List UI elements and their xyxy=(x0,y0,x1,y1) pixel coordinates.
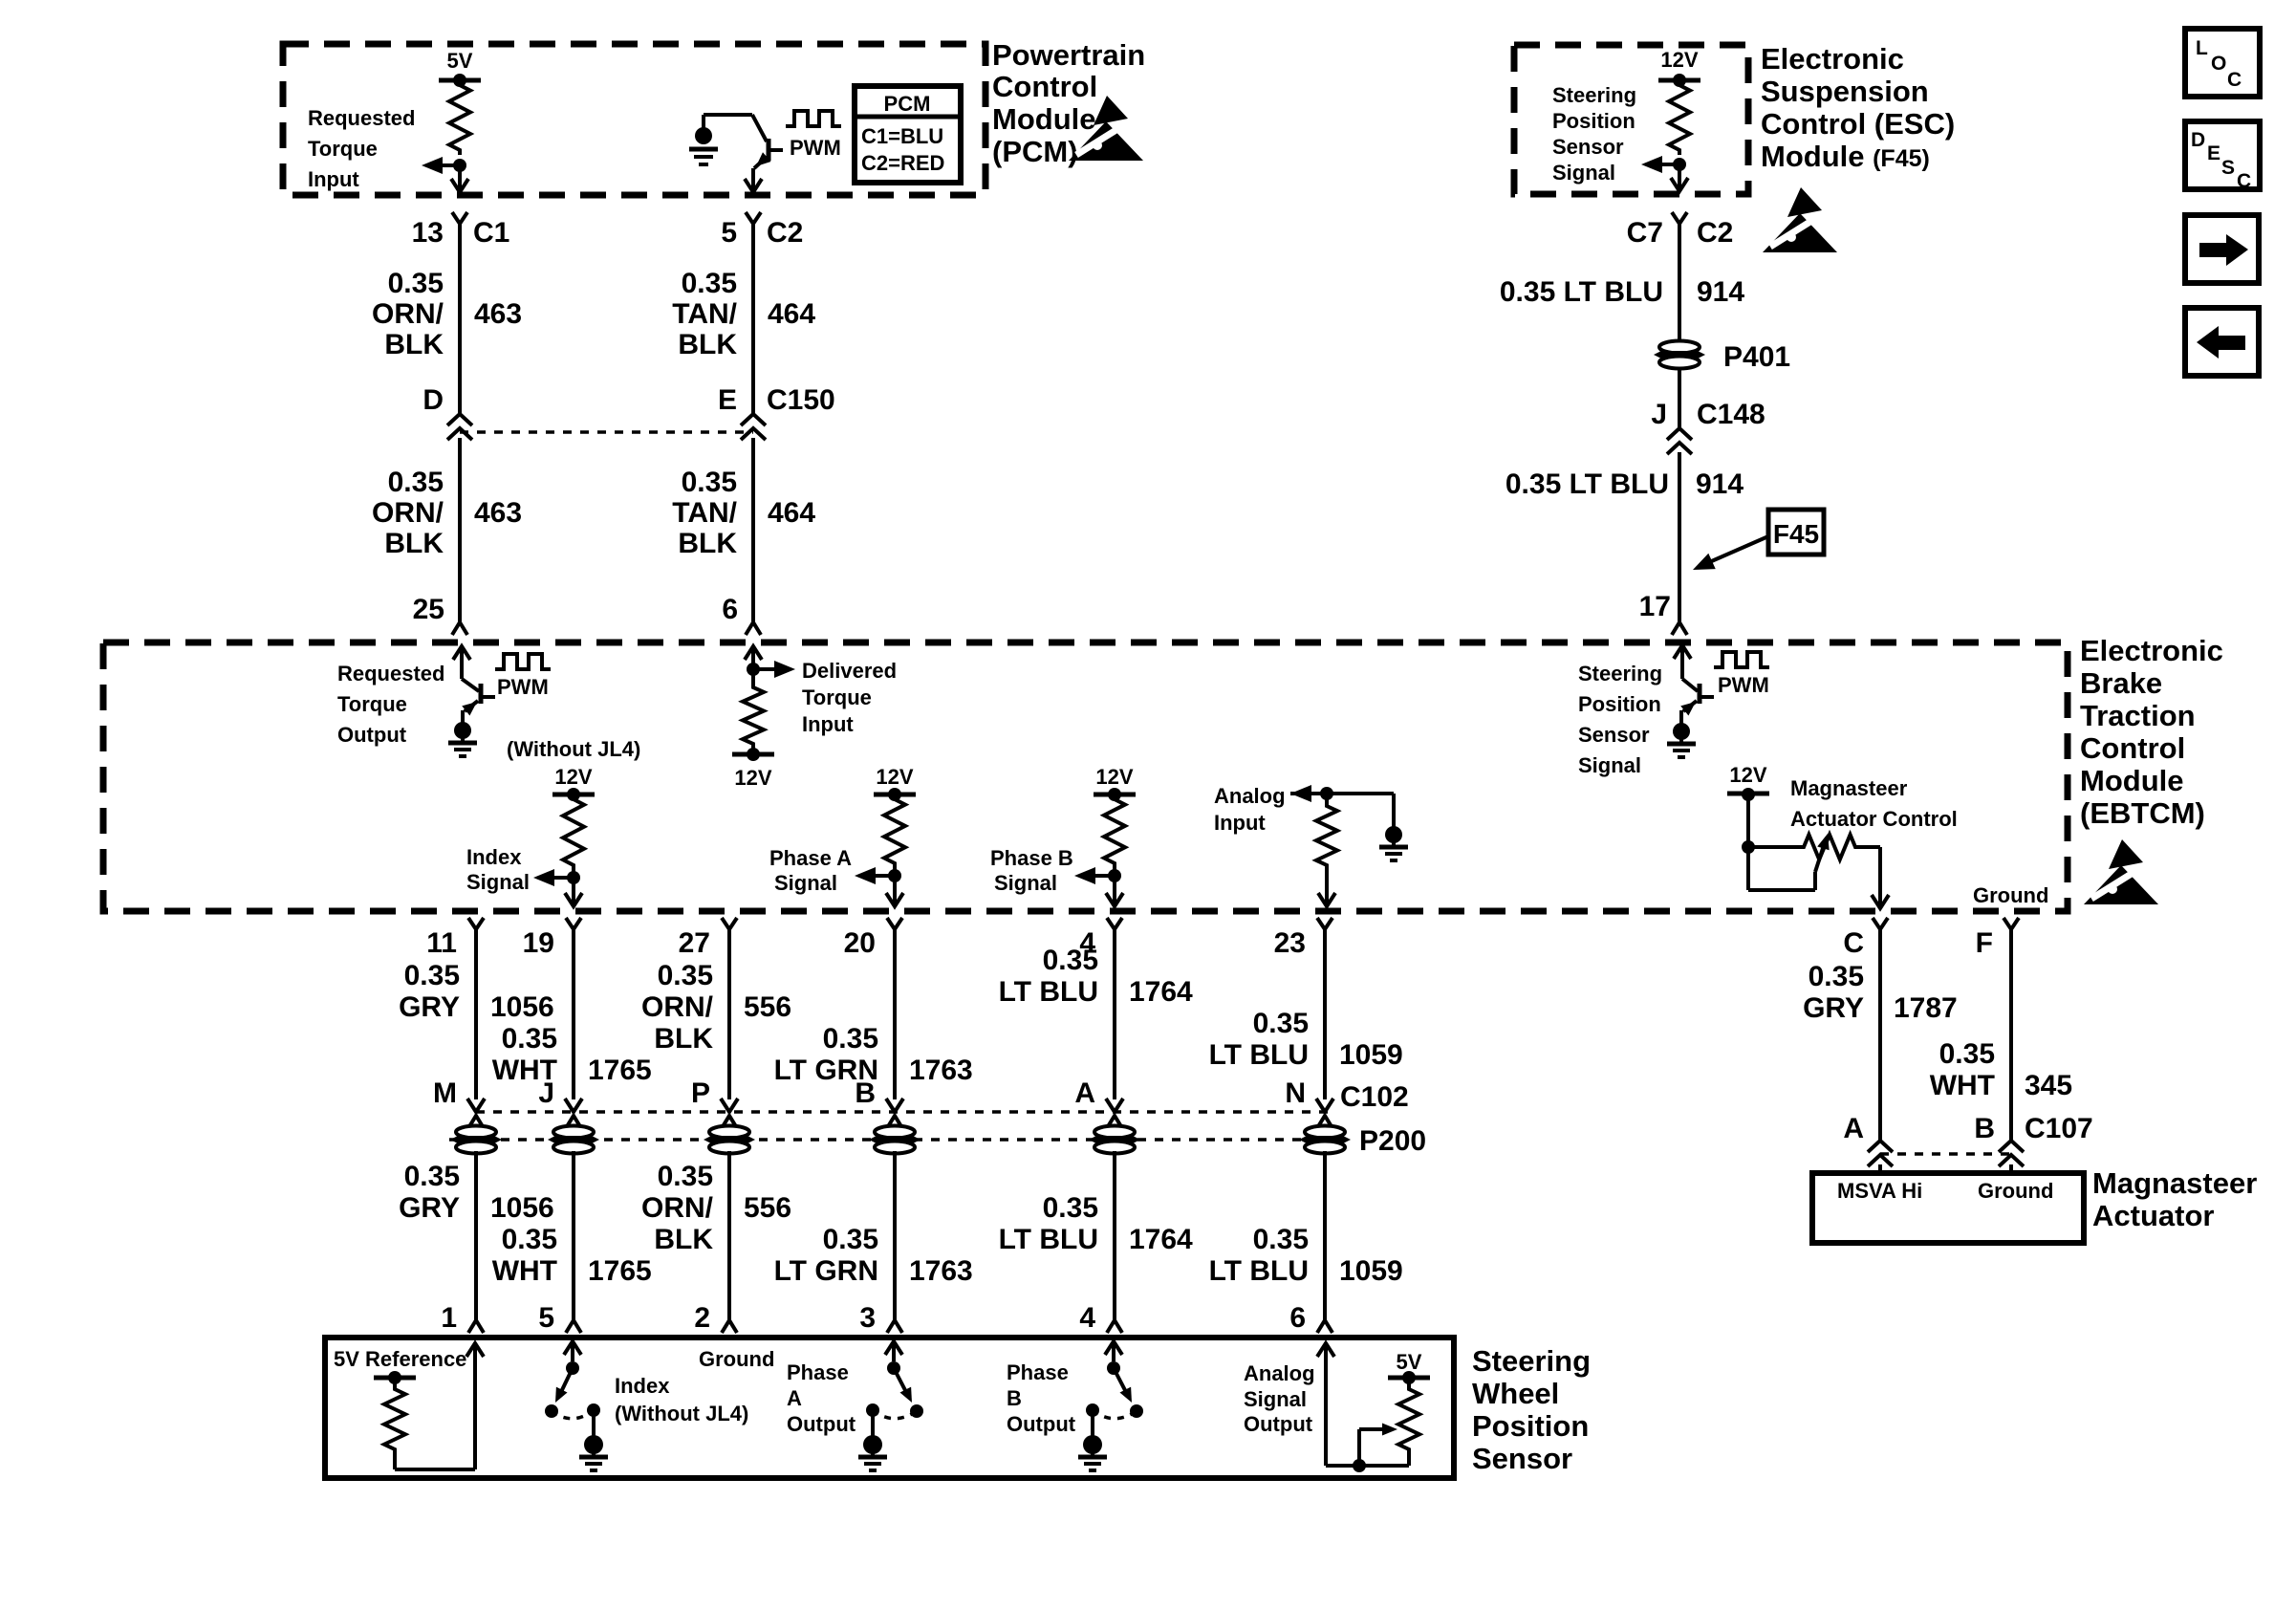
wire end arrow at C102 terminal J xyxy=(565,1099,582,1112)
wire Magnasteer control exit with arrow (pin C) xyxy=(1878,847,1882,907)
connector C102 dashed line xyxy=(476,1110,1334,1114)
svg-text:Input: Input xyxy=(308,167,359,191)
wire 463 lower segment (0.35 ORN/BLK) xyxy=(458,438,462,621)
connector C148 terminal chevrons xyxy=(1667,428,1692,440)
svg-text:13: 13 xyxy=(412,217,444,249)
svg-text:Output: Output xyxy=(1007,1412,1076,1436)
wire Phase A Signal exit with arrow xyxy=(893,876,897,905)
svg-text:Ground: Ground xyxy=(699,1347,774,1371)
wire PCM pin 13 exit with arrow xyxy=(458,165,462,191)
svg-text:Phase: Phase xyxy=(787,1360,849,1384)
resistor Index Signal pull-up xyxy=(563,794,584,870)
PWM square wave symbol (EBTCM right) xyxy=(1714,652,1769,667)
svg-text:S: S xyxy=(2221,157,2235,179)
svg-text:Control (ESC): Control (ESC) xyxy=(1761,107,1955,141)
svg-text:BLK: BLK xyxy=(654,1224,713,1255)
pin 11 terminal fork below EBTCM xyxy=(468,918,484,929)
pin C terminal fork below EBTCM xyxy=(1873,918,1888,929)
wire ground to transistor collector xyxy=(702,115,705,136)
svg-text:914: 914 xyxy=(1696,468,1744,500)
wire entry arrow pin 6 (Delivered Torque Input) xyxy=(745,646,762,660)
svg-text:1: 1 xyxy=(441,1302,457,1334)
wire junction to left arrow (Steering Position Sensor Signal) xyxy=(1658,163,1679,166)
svg-text:A: A xyxy=(1074,1077,1095,1109)
power 5V rail (5V Reference) xyxy=(388,1371,401,1384)
svg-text:0.35: 0.35 xyxy=(502,1023,557,1055)
svg-text:C2=RED: C2=RED xyxy=(861,151,944,175)
svg-text:BLK: BLK xyxy=(678,329,737,360)
node junction Phase A Signal xyxy=(893,868,897,876)
icon box left arrow xyxy=(2185,308,2259,376)
resistor Magnasteer Actuator Control (horizontal) xyxy=(1748,845,1800,849)
svg-text:1059: 1059 xyxy=(1339,1039,1403,1071)
svg-text:WHT: WHT xyxy=(1930,1070,1995,1101)
wire analog output to potentiometer xyxy=(1326,1464,1409,1468)
svg-text:0.35: 0.35 xyxy=(1939,1038,1995,1070)
svg-text:Sensor: Sensor xyxy=(1472,1442,1572,1475)
svg-text:20: 20 xyxy=(844,927,876,959)
svg-text:0.35: 0.35 xyxy=(404,960,460,991)
terminal fork at C102 (A) xyxy=(1107,1116,1122,1128)
terminal fork at C102 (B) xyxy=(887,1116,902,1128)
svg-text:1056: 1056 xyxy=(490,991,554,1023)
svg-text:(Without JL4): (Without JL4) xyxy=(615,1402,748,1425)
svg-text:12V: 12V xyxy=(1729,763,1766,787)
svg-text:0.35: 0.35 xyxy=(1043,1192,1098,1224)
wire 0.35 GRY 1787 (pin C to MSVA Hi) xyxy=(1878,941,1882,1141)
terminal fork at C102 (N) xyxy=(1317,1116,1332,1128)
svg-text:ORN/: ORN/ xyxy=(372,497,444,529)
svg-text:0.35: 0.35 xyxy=(388,467,444,498)
wire 0.35 ORN/BLK 556 lower segment xyxy=(727,1151,731,1320)
wire Index Signal exit with arrow xyxy=(572,878,575,905)
pin 27 terminal fork below EBTCM xyxy=(722,918,737,929)
wire ESC pin C7 exit with arrow xyxy=(1678,164,1681,190)
svg-text:C2: C2 xyxy=(767,217,803,249)
pin 19 terminal fork below EBTCM xyxy=(566,918,581,929)
svg-text:0.35: 0.35 xyxy=(682,268,737,299)
svg-text:PWM: PWM xyxy=(497,675,549,699)
svg-text:P200: P200 xyxy=(1359,1125,1426,1157)
svg-text:0.35: 0.35 xyxy=(404,1161,460,1192)
svg-text:Signal: Signal xyxy=(1578,753,1641,777)
svg-text:23: 23 xyxy=(1274,927,1306,959)
wire end arrow at C102 terminal M xyxy=(467,1099,485,1112)
transistor Q in PCM (Delivered Torque Output) xyxy=(752,115,767,141)
wire 12V to junction xyxy=(1746,794,1750,847)
connector P200 pass-through disc (J) xyxy=(553,1126,594,1139)
svg-text:BLK: BLK xyxy=(678,528,737,559)
pin 23 terminal fork below EBTCM xyxy=(1317,918,1332,929)
callout arrow from F45 box to wire 914 xyxy=(1707,536,1768,563)
wire 464 lower segment (0.35 TAN/BLK) xyxy=(751,438,755,621)
connector P200 pass-through disc (M) xyxy=(456,1126,496,1139)
node junction analog wiper xyxy=(1353,1459,1366,1472)
connector P200 pass-through disc (N) xyxy=(1305,1126,1345,1139)
resistor sensor potentiometer xyxy=(1398,1384,1419,1454)
svg-text:1056: 1056 xyxy=(490,1192,554,1224)
svg-text:C102: C102 xyxy=(1340,1081,1409,1113)
svg-text:5: 5 xyxy=(721,217,737,249)
svg-text:MSVA Hi: MSVA Hi xyxy=(1837,1179,1922,1203)
svg-text:Output: Output xyxy=(1244,1412,1313,1436)
svg-text:Index: Index xyxy=(466,845,522,869)
svg-text:TAN/: TAN/ xyxy=(672,497,737,529)
svg-text:Magnasteer: Magnasteer xyxy=(2092,1166,2257,1200)
svg-text:0.35: 0.35 xyxy=(1253,1224,1309,1255)
svg-text:Requested: Requested xyxy=(308,106,415,130)
icon box DESC xyxy=(2185,121,2260,189)
svg-text:Sensor: Sensor xyxy=(1578,723,1650,747)
wire C107 to Magnasteer actuator (B) xyxy=(2009,1164,2013,1173)
svg-text:Index: Index xyxy=(615,1374,670,1398)
wire entry arrow pin 17 (Steering Position Sensor Signal) xyxy=(1674,645,1691,659)
icon box LOC xyxy=(2185,29,2260,97)
switch Index (sensor) xyxy=(564,1341,581,1355)
svg-text:1059: 1059 xyxy=(1339,1255,1403,1287)
connector P401 in-line disc xyxy=(1659,341,1700,354)
terminal fork at C102 (M) xyxy=(468,1116,484,1128)
svg-text:Brake: Brake xyxy=(2080,666,2162,700)
switch Phase A Output (sensor) xyxy=(885,1341,902,1355)
svg-text:J: J xyxy=(1651,399,1667,430)
ground (Phase B switch) xyxy=(1091,1410,1094,1438)
pin 17 terminal fork into EBTCM xyxy=(1672,622,1687,635)
resistor Phase B Signal pull-up xyxy=(1104,794,1125,868)
svg-text:463: 463 xyxy=(474,298,522,330)
svg-text:(Without JL4): (Without JL4) xyxy=(507,737,640,761)
callout box F45 xyxy=(1768,510,1824,555)
svg-text:Position: Position xyxy=(1472,1409,1589,1443)
svg-text:M: M xyxy=(433,1077,457,1109)
node junction Index Signal xyxy=(572,870,575,878)
svg-text:3: 3 xyxy=(859,1302,876,1334)
connector P200 pass-through disc (B) xyxy=(875,1126,915,1139)
svg-text:E: E xyxy=(718,384,737,416)
terminal fork at C102 (P) xyxy=(722,1116,737,1128)
svg-text:0.35: 0.35 xyxy=(1253,1008,1309,1039)
ESD sensitive symbol (ESC) xyxy=(1787,187,1822,217)
wire end arrow at C102 terminal A xyxy=(1106,1099,1123,1112)
resistor in PCM 5V pull-up xyxy=(449,80,470,155)
svg-text:C: C xyxy=(2237,170,2251,192)
wire 5V reference loop bottom xyxy=(395,1468,475,1471)
ground (Steering Position Sensor Signal) xyxy=(1673,723,1690,740)
svg-text:556: 556 xyxy=(744,991,791,1023)
svg-text:Phase A: Phase A xyxy=(769,846,852,870)
svg-text:Module: Module xyxy=(992,102,1096,136)
node junction Delivered Torque Input xyxy=(747,663,760,676)
svg-text:BLK: BLK xyxy=(384,528,444,559)
svg-text:C1=BLU: C1=BLU xyxy=(861,124,943,148)
svg-text:6: 6 xyxy=(722,594,738,625)
wire P401 to C148 xyxy=(1678,368,1681,427)
svg-text:D: D xyxy=(2191,129,2205,151)
pin 25 terminal fork into EBTCM xyxy=(452,622,467,635)
wire junction to left arrow (Requested Torque Input) xyxy=(439,163,460,167)
pin C7 C2 terminal fork below ESC xyxy=(1672,212,1687,224)
svg-text:A: A xyxy=(1843,1113,1864,1144)
svg-text:0.35: 0.35 xyxy=(823,1023,878,1055)
svg-text:27: 27 xyxy=(679,927,710,959)
wire 0.35 LT GRN 1763 lower segment xyxy=(893,1151,897,1320)
svg-text:Actuator Control: Actuator Control xyxy=(1790,807,1958,831)
svg-text:Control: Control xyxy=(2080,731,2185,765)
svg-text:(EBTCM): (EBTCM) xyxy=(2080,796,2205,830)
module box: Magnasteer Actuator xyxy=(1812,1173,2084,1243)
svg-text:Analog: Analog xyxy=(1214,784,1286,808)
module box: Electronic Suspension Control (ESC) dashed outline xyxy=(1514,45,1748,194)
pin 6 terminal fork into sensor xyxy=(1317,1320,1332,1333)
wire 0.35 GRY 1056 upper segment xyxy=(474,941,478,1099)
wire Analog Input exit with arrow xyxy=(1325,870,1329,905)
svg-text:Sensor: Sensor xyxy=(1552,135,1624,159)
ground (Analog Input) xyxy=(1385,826,1402,843)
wire 0.35 WHT 1765 upper segment xyxy=(572,941,575,1099)
svg-text:LT GRN: LT GRN xyxy=(774,1255,878,1287)
resistor Analog Input pull-down xyxy=(1316,801,1337,870)
switch Phase B Output (sensor) xyxy=(1105,1341,1122,1355)
svg-text:0.35: 0.35 xyxy=(823,1224,878,1255)
svg-text:Phase: Phase xyxy=(1007,1360,1069,1384)
transistor Q EBTCM Steering Position Sensor Signal xyxy=(1682,679,1698,691)
svg-text:L: L xyxy=(2196,37,2208,59)
svg-text:19: 19 xyxy=(523,927,554,959)
svg-text:LT BLU: LT BLU xyxy=(999,1224,1098,1255)
module box: Electronic Brake Traction Control Module (EBTCM) dashed outline xyxy=(103,642,2068,911)
svg-text:GRY: GRY xyxy=(399,1192,460,1224)
svg-text:5V: 5V xyxy=(447,49,473,73)
svg-text:463: 463 xyxy=(474,497,522,529)
svg-text:1764: 1764 xyxy=(1129,1224,1193,1255)
wire pin 1 entry arrow (5V Reference) xyxy=(466,1343,484,1357)
svg-text:LT BLU: LT BLU xyxy=(999,976,1098,1008)
PWM square wave symbol (EBTCM left) xyxy=(495,654,551,669)
svg-text:TAN/: TAN/ xyxy=(672,298,737,330)
ESD sensitive symbol (EBTCM) xyxy=(2109,839,2143,869)
svg-text:P: P xyxy=(691,1077,710,1109)
svg-text:1764: 1764 xyxy=(1129,976,1193,1008)
svg-text:J: J xyxy=(538,1077,554,1109)
svg-text:ORN/: ORN/ xyxy=(641,1192,714,1224)
svg-text:C1: C1 xyxy=(473,217,509,249)
svg-text:Control: Control xyxy=(992,70,1097,103)
svg-text:WHT: WHT xyxy=(492,1255,557,1287)
svg-text:O: O xyxy=(2211,53,2226,75)
pin 5 C2 terminal fork below PCM xyxy=(746,212,761,224)
svg-text:Torque: Torque xyxy=(802,685,872,709)
svg-text:Phase B: Phase B xyxy=(990,846,1073,870)
wire transistor emitter to ground (Steering) xyxy=(1679,710,1683,725)
svg-text:Input: Input xyxy=(1214,811,1266,835)
svg-text:25: 25 xyxy=(413,594,444,625)
svg-text:0.35: 0.35 xyxy=(658,960,713,991)
svg-text:12V: 12V xyxy=(734,766,771,790)
wire transistor emitter to ground xyxy=(461,710,465,724)
wire 914 lower segment (0.35 LT BLU) xyxy=(1678,452,1681,621)
svg-text:5V: 5V xyxy=(1397,1350,1422,1374)
svg-text:C7: C7 xyxy=(1627,217,1663,249)
wire 0.35 LT BLU 1059 upper segment xyxy=(1323,941,1327,1099)
svg-text:P401: P401 xyxy=(1723,341,1790,373)
connector C107 chevrons wire B xyxy=(1999,1141,2024,1152)
svg-text:E: E xyxy=(2207,142,2220,164)
wire C107 to Magnasteer actuator (A) xyxy=(1878,1164,1882,1173)
svg-text:B: B xyxy=(1974,1113,1995,1144)
svg-text:Torque: Torque xyxy=(308,137,378,161)
wire 464 upper segment (0.35 TAN/BLK) xyxy=(751,235,755,414)
svg-text:Output: Output xyxy=(787,1412,856,1436)
ground (Index switch) xyxy=(592,1410,596,1438)
svg-text:A: A xyxy=(787,1386,802,1410)
arrow to label Phase B Signal xyxy=(1094,874,1115,878)
power 5V rail (sensor potentiometer) xyxy=(1402,1371,1416,1384)
transistor Q EBTCM Requested Torque Output xyxy=(462,679,479,691)
resistor 5V Reference xyxy=(384,1384,405,1454)
svg-text:6: 6 xyxy=(1289,1302,1306,1334)
wire 0.35 LT GRN 1763 upper segment xyxy=(893,941,897,1099)
svg-text:Traction: Traction xyxy=(2080,699,2196,732)
svg-text:0.35 LT BLU: 0.35 LT BLU xyxy=(1505,468,1669,500)
svg-text:Actuator: Actuator xyxy=(2092,1199,2214,1232)
svg-text:0.35: 0.35 xyxy=(682,467,737,498)
svg-text:0.35: 0.35 xyxy=(1809,961,1864,992)
pin 20 terminal fork below EBTCM xyxy=(887,918,902,929)
wire end arrow at C102 terminal B xyxy=(886,1099,903,1112)
wire 0.35 WHT 1765 lower segment xyxy=(572,1151,575,1320)
svg-text:C150: C150 xyxy=(767,384,835,416)
svg-text:PWM: PWM xyxy=(790,136,841,160)
svg-text:12V: 12V xyxy=(1095,765,1133,789)
wire 0.35 WHT 345 (pin F to actuator ground) xyxy=(2009,941,2013,1141)
wire 0.35 GRY 1056 lower segment xyxy=(474,1151,478,1320)
svg-text:C: C xyxy=(2227,69,2242,91)
svg-text:464: 464 xyxy=(768,497,815,529)
pin 1 terminal fork into sensor xyxy=(468,1320,484,1333)
pin 6 terminal fork into EBTCM xyxy=(746,622,761,635)
wire 0.35 ORN/BLK 556 upper segment xyxy=(727,941,731,1099)
svg-text:GRY: GRY xyxy=(1803,992,1864,1024)
svg-text:0.35 LT BLU: 0.35 LT BLU xyxy=(1500,276,1663,308)
svg-text:Delivered: Delivered xyxy=(802,659,897,683)
svg-text:Signal: Signal xyxy=(994,871,1057,895)
terminal fork at C102 (J) xyxy=(566,1116,581,1128)
wire end arrow at C102 terminal N xyxy=(1316,1099,1333,1112)
wire end arrow at C102 terminal P xyxy=(721,1099,738,1112)
connector C107 dashed line xyxy=(1880,1152,2011,1156)
svg-text:2: 2 xyxy=(694,1302,710,1334)
svg-text:Steering: Steering xyxy=(1552,83,1636,107)
svg-text:464: 464 xyxy=(768,298,815,330)
connector C107 chevrons wire A xyxy=(1868,1141,1893,1152)
svg-text:GRY: GRY xyxy=(399,991,460,1023)
power 12V rail (Delivered Torque Input) xyxy=(751,749,755,754)
svg-text:Input: Input xyxy=(802,712,854,736)
wire PCM pin 5 exit with arrow xyxy=(751,168,755,191)
svg-text:5V Reference: 5V Reference xyxy=(334,1347,466,1371)
ground in PCM (Delivered Torque Output collector ref) xyxy=(695,127,712,144)
svg-text:0.35: 0.35 xyxy=(658,1161,713,1192)
svg-text:Position: Position xyxy=(1552,109,1635,133)
svg-text:C: C xyxy=(1843,927,1864,959)
svg-text:4: 4 xyxy=(1079,1302,1095,1334)
svg-text:1765: 1765 xyxy=(588,1255,652,1287)
module box: Powertrain Control Module (PCM) dashed outline xyxy=(283,44,986,195)
svg-text:556: 556 xyxy=(744,1192,791,1224)
svg-text:Signal: Signal xyxy=(774,871,837,895)
wiper arm (sensor potentiometer) xyxy=(1357,1429,1361,1466)
connector C150 terminal chevrons on wire E xyxy=(741,414,766,425)
svg-text:Electronic: Electronic xyxy=(2080,634,2223,667)
arrow to label Analog Input xyxy=(1290,785,1311,802)
arrow to label Phase A Signal xyxy=(874,874,895,878)
node junction Magnasteer xyxy=(1742,840,1755,854)
wire 914 upper segment (0.35 LT BLU) xyxy=(1678,235,1681,343)
wire Phase B Signal exit with arrow xyxy=(1113,876,1116,905)
svg-text:LT BLU: LT BLU xyxy=(1209,1039,1309,1071)
wire pin 6 entry arrow (Analog Signal Output) xyxy=(1317,1343,1334,1357)
svg-text:1763: 1763 xyxy=(909,1055,973,1086)
PCM connector legend box xyxy=(855,86,961,183)
svg-text:Torque: Torque xyxy=(337,692,407,716)
svg-text:LT BLU: LT BLU xyxy=(1209,1255,1309,1287)
svg-text:Wheel: Wheel xyxy=(1472,1377,1559,1410)
svg-text:Position: Position xyxy=(1578,692,1661,716)
wire 0.35 LT BLU 1764 lower segment xyxy=(1113,1151,1116,1320)
node junction below ESC resistor xyxy=(1673,158,1686,171)
connector P200 dashed line xyxy=(449,1138,1336,1142)
svg-text:D: D xyxy=(422,384,444,416)
wire 0.35 LT BLU 1764 upper segment xyxy=(1113,941,1116,1099)
svg-text:Ground: Ground xyxy=(1973,883,2048,907)
svg-text:1765: 1765 xyxy=(588,1055,652,1086)
svg-text:1787: 1787 xyxy=(1894,992,1958,1024)
svg-text:BLK: BLK xyxy=(654,1023,713,1055)
arrow to label Delivered Torque Input xyxy=(753,667,778,671)
svg-text:11: 11 xyxy=(426,927,457,959)
pin 4 terminal fork into sensor xyxy=(1107,1320,1122,1333)
connector C150 dashed link line xyxy=(460,430,753,434)
module box: Steering Wheel Position Sensor xyxy=(325,1338,1454,1478)
resistor Phase A Signal pull-up xyxy=(884,794,905,868)
svg-text:0.35: 0.35 xyxy=(502,1224,557,1255)
pin 4 terminal fork below EBTCM xyxy=(1107,918,1122,929)
icon box right arrow xyxy=(2185,215,2259,283)
svg-text:(PCM): (PCM) xyxy=(992,135,1078,168)
ground (Phase A switch) xyxy=(871,1410,875,1438)
PWM square wave symbol (PCM) xyxy=(786,111,841,126)
svg-text:0.35: 0.35 xyxy=(388,268,444,299)
svg-text:Requested: Requested xyxy=(337,662,444,685)
svg-text:Output: Output xyxy=(337,723,407,747)
svg-text:F45: F45 xyxy=(1773,519,1819,549)
svg-text:914: 914 xyxy=(1697,276,1744,308)
svg-text:Signal: Signal xyxy=(1552,161,1615,185)
svg-text:Signal: Signal xyxy=(1244,1387,1307,1411)
svg-text:12V: 12V xyxy=(554,765,592,789)
node junction Phase B Signal xyxy=(1113,868,1116,876)
svg-text:Ground: Ground xyxy=(1978,1179,2053,1203)
node junction Analog Input xyxy=(1320,787,1333,800)
ESD sensitive symbol (PCM) xyxy=(1094,96,1128,125)
resistor Delivered Torque Input pull-down xyxy=(751,669,755,683)
connector P200 pass-through disc (A) xyxy=(1094,1126,1135,1139)
connector P200 pass-through disc (P) xyxy=(709,1126,749,1139)
pin 13 C1 terminal fork below PCM xyxy=(452,212,467,224)
svg-text:ORN/: ORN/ xyxy=(372,298,444,330)
svg-text:B: B xyxy=(1007,1386,1022,1410)
svg-text:PCM: PCM xyxy=(884,92,931,116)
